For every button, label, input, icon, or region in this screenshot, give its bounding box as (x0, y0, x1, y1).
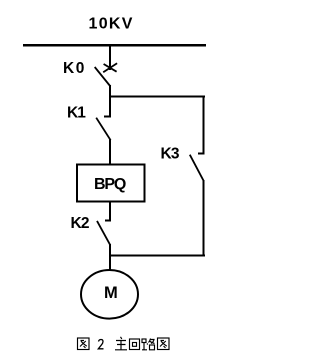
switch K3 blade (190, 155, 204, 182)
glyph 路 (142, 339, 155, 350)
switch K2 upper contact tick (105, 220, 111, 222)
switch K2 blade (97, 221, 110, 245)
wire: K2 to motor (109, 244, 111, 271)
glyph 图 (second) (158, 338, 170, 350)
switch K3 upper contact tick (198, 153, 205, 155)
svg-text:M: M (104, 284, 118, 302)
box BPQ (bypass device) (77, 165, 145, 202)
svg-text:K0: K0 (63, 60, 86, 77)
svg-text:K2: K2 (71, 215, 89, 232)
glyph 2 (98, 340, 103, 349)
switch K0 blade (95, 67, 111, 87)
svg-text:10KV: 10KV (89, 16, 134, 33)
wire: branch right vertical (lower) (203, 180, 205, 257)
wire: branch top horizontal (109, 96, 205, 98)
glyph 图 (first) (78, 338, 90, 350)
svg-text:BPQ: BPQ (94, 176, 126, 193)
wire: branch right vertical (upper) (203, 96, 205, 154)
wire: 10kV bus bar (23, 44, 206, 46)
svg-text:K3: K3 (161, 146, 180, 163)
wire: branch bottom horizontal (109, 255, 205, 257)
breaker cross mark at K0 upper contact (103, 63, 117, 72)
wire: BPQ to K2 (109, 202, 111, 221)
glyph 回 (130, 339, 140, 350)
wire: K1 to BPQ box (109, 139, 111, 164)
motor M circle (81, 270, 138, 319)
wire: K0 to K1 (109, 85, 111, 117)
caption: 图 2 主回路图 (Figure 2 Main circuit diagram), CJK drawn as vector strokes (78, 337, 170, 350)
switch K1 blade (96, 118, 110, 141)
glyph 主 (115, 337, 127, 350)
wire: bus to K0 breaker (109, 45, 111, 70)
svg-text:K1: K1 (67, 105, 86, 122)
switch K1 upper contact tick (104, 116, 111, 118)
